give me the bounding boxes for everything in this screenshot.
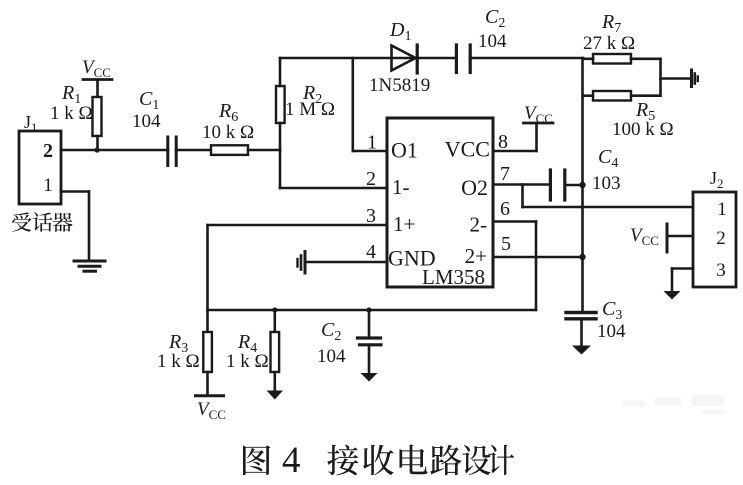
capacitor C2 (bottom) [317, 310, 381, 373]
resistor R7 [583, 11, 661, 64]
junction dot pin5/node [579, 254, 585, 260]
resistor R3 [157, 310, 212, 395]
wire to right ground [661, 77, 691, 80]
svg-text:D1: D1 [389, 19, 411, 44]
svg-text:2-: 2- [470, 213, 488, 237]
power Vcc (J2 pin 2) [630, 224, 693, 252]
svg-text:104: 104 [317, 346, 346, 367]
wire O1 branch up (pin 1) [353, 58, 387, 151]
wire pin 5 (2+) to node [493, 256, 583, 259]
svg-text:7: 7 [500, 163, 510, 185]
wire J1 pin1 to ground [61, 192, 89, 261]
capacitor C3 [566, 298, 626, 346]
connector J1 [19, 112, 61, 204]
ground (right, sideways) [692, 70, 698, 87]
svg-text:C1: C1 [139, 88, 159, 113]
ground (C2 bottom, arrow) [361, 373, 378, 382]
wire R7/R5 right join [659, 59, 662, 96]
svg-text:2: 2 [716, 228, 726, 249]
svg-text:C4: C4 [598, 146, 618, 171]
capacitor C1 [132, 88, 176, 166]
ground (below J1) [74, 261, 105, 271]
svg-text:104: 104 [478, 31, 507, 52]
caption 图4 接收电路设计 [243, 440, 514, 481]
resistor R2 [276, 58, 335, 150]
capacitor C2 (top) [456, 6, 583, 73]
svg-text:2: 2 [366, 168, 376, 190]
wire main vertical node (C2/R7/R5 to C3) [581, 58, 584, 311]
resistor R1 [50, 82, 102, 150]
junction dot C2b/bus [366, 307, 371, 312]
wire node B down to pin 2 [280, 150, 387, 188]
junction dot R4/bus [272, 307, 277, 312]
svg-text:1 M Ω: 1 M Ω [285, 99, 335, 120]
capacitor C4 [550, 146, 620, 200]
svg-text:1N5819: 1N5819 [369, 75, 430, 96]
ground (pin 4, sideways) [298, 252, 306, 274]
svg-text:VCC: VCC [445, 137, 490, 162]
wire J2 pin 3 to ground [672, 269, 693, 292]
svg-text:J1: J1 [24, 112, 38, 135]
svg-text:5: 5 [501, 233, 511, 255]
svg-text:C2: C2 [321, 319, 341, 344]
svg-text:1: 1 [43, 175, 53, 196]
svg-text:100 k Ω: 100 k Ω [612, 119, 674, 140]
svg-text:C3: C3 [602, 298, 622, 323]
wire pin 7 (O2) to C4 [493, 183, 550, 186]
svg-text:O2: O2 [461, 175, 488, 200]
svg-text:104: 104 [132, 111, 161, 132]
ground (R4, arrow) [267, 391, 284, 400]
wire pin 8 to Vcc [493, 123, 537, 151]
power Vcc (top left) [82, 57, 112, 97]
svg-text:1 k Ω: 1 k Ω [50, 103, 93, 124]
power Vcc (R3, below) [196, 396, 226, 422]
power Vcc (pin 8) [524, 103, 554, 126]
svg-text:VCC: VCC [630, 225, 659, 248]
wire pin 4 (GND) [306, 261, 387, 264]
ground (C3, arrow) [572, 346, 591, 355]
svg-text:1: 1 [367, 132, 377, 154]
resistor R6 [202, 100, 254, 155]
wire J1 pin2 to C1 [61, 149, 168, 152]
svg-text:VCC: VCC [197, 399, 226, 422]
svg-text:4: 4 [282, 440, 301, 481]
wire C1 to R6 [176, 149, 211, 152]
wire O2 jog down to J2 pin 1 [523, 185, 694, 208]
label 受话器 [12, 212, 73, 231]
svg-text:27 k Ω: 27 k Ω [583, 33, 635, 54]
svg-text:J2: J2 [710, 168, 724, 191]
ground (J2 pin 3, arrow) [664, 291, 681, 300]
svg-text:1 k Ω: 1 k Ω [157, 351, 200, 372]
svg-text:LM358: LM358 [422, 265, 485, 289]
svg-text:1-: 1- [392, 175, 410, 199]
svg-text:VCC: VCC [82, 57, 111, 80]
connector J2 [693, 168, 736, 287]
svg-text:6: 6 [500, 198, 510, 220]
resistor R4 [226, 310, 279, 391]
svg-text:104: 104 [597, 321, 626, 342]
wire bottom bus [208, 309, 537, 312]
svg-text:103: 103 [592, 173, 621, 194]
svg-text:1: 1 [717, 199, 727, 220]
svg-text:3: 3 [716, 260, 726, 281]
wire pin 6 (2-) down to bus [493, 222, 536, 311]
svg-text:VCC: VCC [524, 103, 553, 126]
junction dot C4/node [579, 182, 585, 188]
svg-text:O1: O1 [391, 138, 418, 163]
diode D1 1N5819 [369, 19, 430, 96]
svg-text:4: 4 [366, 241, 376, 263]
wire pin 3 (1+) [208, 225, 388, 310]
wire top feedback (R2 top to D1) [280, 57, 456, 60]
svg-text:10 k Ω: 10 k Ω [202, 122, 254, 143]
svg-text:1 k Ω: 1 k Ω [226, 351, 269, 372]
svg-text:2: 2 [43, 140, 53, 162]
op-amp U1 LM358 [387, 118, 493, 289]
scan noise (faint) [622, 395, 726, 414]
svg-text:C2: C2 [485, 6, 505, 31]
junction dot R1/node [94, 147, 99, 152]
svg-text:1+: 1+ [393, 212, 415, 236]
wire R6 to node B [248, 149, 280, 152]
resistor R5 [583, 91, 674, 140]
